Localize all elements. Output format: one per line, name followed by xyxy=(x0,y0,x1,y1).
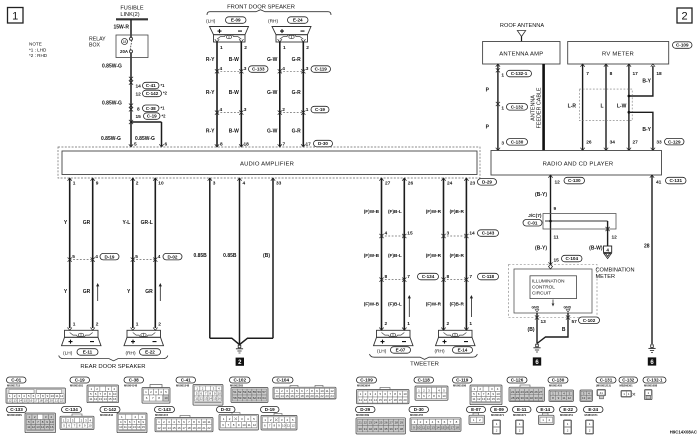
svg-text:(MU801213): (MU801213) xyxy=(596,384,611,388)
phase arrow tweeter RH xyxy=(470,298,472,318)
svg-text:C-134: C-134 xyxy=(422,274,435,279)
svg-text:27: 27 xyxy=(633,139,639,145)
connector table D-19 xyxy=(261,407,280,413)
wire 15W-R xyxy=(130,19,132,37)
svg-text:3: 3 xyxy=(501,141,504,147)
svg-text:MU801671: MU801671 xyxy=(585,413,599,417)
svg-text:4: 4 xyxy=(243,181,246,187)
svg-text:*1 : LHD: *1 : LHD xyxy=(29,48,47,53)
svg-text:15: 15 xyxy=(441,425,445,429)
svg-text:16: 16 xyxy=(290,394,294,398)
ground junction V xyxy=(210,338,273,344)
svg-text:60: 60 xyxy=(243,396,247,400)
wire 28 pin 41 xyxy=(651,175,653,344)
svg-text:1: 1 xyxy=(501,106,504,112)
svg-text:0.85W-G: 0.85W-G xyxy=(101,136,121,142)
tweeter RH xyxy=(436,330,476,345)
svg-text:61: 61 xyxy=(248,396,252,400)
svg-text:G-R: G-R xyxy=(292,57,302,63)
svg-text:8: 8 xyxy=(385,274,388,280)
connector table E-11 xyxy=(513,407,532,413)
svg-text:20: 20 xyxy=(197,426,201,430)
svg-text:MU801455: MU801455 xyxy=(410,413,424,417)
connector table C-126 xyxy=(507,377,527,383)
svg-text:12: 12 xyxy=(8,399,12,403)
connector table D-02 xyxy=(217,407,236,413)
svg-text:10: 10 xyxy=(158,181,164,187)
tweeter bracket xyxy=(370,354,478,359)
svg-text:C-133: C-133 xyxy=(10,407,23,412)
svg-text:C-130: C-130 xyxy=(568,178,581,183)
svg-text:CONTROL: CONTROL xyxy=(532,284,555,289)
label E-07 xyxy=(391,347,411,354)
svg-text:12: 12 xyxy=(568,396,572,400)
svg-text:19: 19 xyxy=(44,399,48,403)
svg-text:7: 7 xyxy=(469,274,472,280)
ground ref 2 xyxy=(236,358,244,366)
svg-text:17: 17 xyxy=(389,398,393,402)
svg-text:28: 28 xyxy=(395,421,399,425)
svg-text:11: 11 xyxy=(554,235,559,241)
svg-text:12: 12 xyxy=(253,423,257,427)
svg-text:GR: GR xyxy=(145,289,153,295)
svg-text:23: 23 xyxy=(369,421,373,425)
connector table C-102 xyxy=(230,377,251,383)
connector mark C-41/C-142 xyxy=(129,77,133,81)
svg-text:C-38: C-38 xyxy=(129,377,139,382)
svg-text:(F)B-L: (F)B-L xyxy=(388,253,402,258)
svg-text:15W-R: 15W-R xyxy=(114,25,130,31)
label E-14 xyxy=(453,347,473,354)
svg-text:*1: *1 xyxy=(161,106,166,111)
svg-text:D-02: D-02 xyxy=(168,254,178,259)
svg-text:8: 8 xyxy=(137,106,140,112)
svg-text:MU801688: MU801688 xyxy=(644,384,658,388)
svg-text:34: 34 xyxy=(610,139,616,145)
svg-text:R-Y: R-Y xyxy=(206,90,215,96)
svg-text:30: 30 xyxy=(358,427,362,431)
connector mark C-132 xyxy=(496,102,500,106)
ground (right) xyxy=(648,345,655,353)
svg-text:14: 14 xyxy=(103,397,107,401)
label C-130 xyxy=(507,139,528,146)
svg-text:C-132: C-132 xyxy=(622,377,635,382)
svg-text:22: 22 xyxy=(320,394,324,398)
svg-text:34: 34 xyxy=(379,427,383,431)
svg-text:16: 16 xyxy=(50,425,54,429)
svg-text:34: 34 xyxy=(539,396,543,400)
RV meter xyxy=(568,42,669,65)
svg-text:MU801715: MU801715 xyxy=(7,384,21,388)
svg-text:22: 22 xyxy=(364,421,368,425)
wire L-R xyxy=(582,64,584,151)
svg-text:63: 63 xyxy=(258,396,262,400)
svg-text:E-07: E-07 xyxy=(396,348,406,353)
connector table C-143 xyxy=(155,407,175,413)
svg-text:38: 38 xyxy=(400,427,404,431)
connector crossing D-02 xyxy=(133,259,156,261)
svg-text:C-104: C-104 xyxy=(276,377,289,382)
connector table D-29 xyxy=(356,407,376,413)
svg-text:C-01: C-01 xyxy=(11,377,21,382)
svg-text:E-14: E-14 xyxy=(458,348,468,353)
connector crossing C-19 xyxy=(280,112,304,114)
svg-text:17: 17 xyxy=(451,425,455,429)
svg-text:24: 24 xyxy=(374,421,378,425)
svg-text:MU801589: MU801589 xyxy=(356,413,370,417)
rear speaker wire pin 2 xyxy=(132,178,134,328)
svg-text:17: 17 xyxy=(182,426,186,430)
svg-text:23: 23 xyxy=(520,390,524,394)
svg-text:2: 2 xyxy=(96,321,99,327)
svg-text:10: 10 xyxy=(282,424,286,428)
tweeter wire pin 23 xyxy=(465,178,467,330)
svg-text:23: 23 xyxy=(470,181,476,187)
svg-text:MU801548: MU801548 xyxy=(176,384,190,388)
svg-text:14: 14 xyxy=(137,425,141,429)
svg-text:(B): (B) xyxy=(263,253,270,259)
svg-text:16: 16 xyxy=(113,397,117,401)
svg-text:(F)W-R: (F)W-R xyxy=(426,253,442,258)
svg-text:11: 11 xyxy=(207,420,210,424)
svg-text:G-R: G-R xyxy=(292,129,302,135)
svg-text:Y-L: Y-L xyxy=(123,220,131,226)
svg-text:4: 4 xyxy=(282,66,285,72)
svg-text:0.85W-G: 0.85W-G xyxy=(135,136,155,142)
phase arrow tweeter LH xyxy=(408,298,410,318)
svg-text:ILLUMINATION: ILLUMINATION xyxy=(532,278,564,283)
svg-text:10: 10 xyxy=(202,420,206,424)
connector table E-24 xyxy=(584,407,604,413)
svg-text:14: 14 xyxy=(587,396,591,400)
svg-text:MU801215: MU801215 xyxy=(155,413,169,417)
svg-text:(RH): (RH) xyxy=(435,348,446,354)
svg-text:26: 26 xyxy=(586,139,592,145)
antenna amp xyxy=(483,42,560,65)
svg-text:C-118: C-118 xyxy=(482,274,495,279)
radio and CD player xyxy=(491,151,662,176)
svg-text:16: 16 xyxy=(177,426,181,430)
svg-text:4: 4 xyxy=(220,66,223,72)
label E-11 xyxy=(77,349,98,356)
wire B pin 57 xyxy=(537,313,568,344)
svg-text:15: 15 xyxy=(45,425,49,429)
svg-text:1: 1 xyxy=(73,181,76,187)
svg-text:MU801671: MU801671 xyxy=(491,413,505,417)
svg-text:FEEDER CABLE: FEEDER CABLE xyxy=(537,87,543,128)
svg-text:10: 10 xyxy=(242,423,246,427)
svg-text:18: 18 xyxy=(300,394,304,398)
svg-text:(B-Y): (B-Y) xyxy=(535,192,547,198)
svg-text:COMBINATION: COMBINATION xyxy=(596,268,635,274)
svg-text:(RH): (RH) xyxy=(126,350,137,356)
svg-text:17: 17 xyxy=(34,399,38,403)
svg-text:15: 15 xyxy=(379,398,383,402)
splice xyxy=(129,120,133,124)
svg-text:5: 5 xyxy=(135,254,138,260)
svg-text:41: 41 xyxy=(600,391,604,395)
svg-text:22: 22 xyxy=(516,390,520,394)
audio amplifier U1 xyxy=(62,151,477,175)
connector table C-130 xyxy=(548,377,568,383)
label D-19 xyxy=(100,253,119,260)
svg-text:10: 10 xyxy=(496,392,500,396)
svg-text:ANTENNA AMP: ANTENNA AMP xyxy=(499,52,543,58)
arrow inside meter xyxy=(552,300,554,305)
svg-text:MU801081: MU801081 xyxy=(70,384,84,388)
svg-text:(F)W-B: (F)W-B xyxy=(364,209,380,214)
svg-text:1: 1 xyxy=(407,321,410,327)
svg-text:15: 15 xyxy=(554,258,560,264)
svg-text:C-142: C-142 xyxy=(104,407,117,412)
svg-text:15: 15 xyxy=(108,397,112,401)
svg-text:27: 27 xyxy=(539,390,543,394)
svg-text:10: 10 xyxy=(320,389,324,393)
wire (B) pin 33 xyxy=(272,178,274,338)
svg-text:52: 52 xyxy=(238,390,242,394)
branch to off-page 4 xyxy=(607,221,609,246)
svg-text:32: 32 xyxy=(369,427,373,431)
svg-text:4: 4 xyxy=(385,230,388,236)
svg-text:19: 19 xyxy=(192,426,196,430)
svg-text:E-07: E-07 xyxy=(471,407,481,412)
svg-text:16: 16 xyxy=(29,399,33,403)
svg-text:57: 57 xyxy=(262,390,266,394)
svg-text:C-134: C-134 xyxy=(65,407,78,412)
svg-text:D-02: D-02 xyxy=(221,407,231,412)
svg-text:L-R: L-R xyxy=(568,104,577,110)
svg-text:C-126: C-126 xyxy=(511,377,524,382)
phase arrow rear LH xyxy=(97,286,99,302)
svg-text:13: 13 xyxy=(431,425,435,429)
label D-29 xyxy=(478,179,497,186)
label C-132-1 xyxy=(507,70,532,77)
rear speaker wire pin 10 xyxy=(154,178,156,328)
svg-text:C-132-1: C-132-1 xyxy=(647,377,663,382)
svg-text:24: 24 xyxy=(525,390,529,394)
svg-text:1: 1 xyxy=(73,321,76,327)
svg-text:G-W: G-W xyxy=(267,129,278,135)
speaker rear RH xyxy=(124,330,164,345)
rear door speaker bracket xyxy=(59,356,168,361)
svg-text:(B): (B) xyxy=(528,327,535,333)
svg-text:2: 2 xyxy=(681,11,687,23)
svg-text:15: 15 xyxy=(407,230,413,236)
connector crossing C-133 xyxy=(217,70,241,72)
svg-text:4: 4 xyxy=(606,247,609,252)
svg-text:14: 14 xyxy=(19,399,23,403)
svg-text:13: 13 xyxy=(582,396,586,400)
svg-text:31: 31 xyxy=(525,396,529,400)
svg-text:C-132-1: C-132-1 xyxy=(511,71,528,76)
label D-30 xyxy=(314,140,333,147)
svg-text:C-129: C-129 xyxy=(668,139,681,144)
svg-text:2: 2 xyxy=(447,321,450,327)
wire L xyxy=(605,64,607,151)
svg-text:C-41: C-41 xyxy=(181,377,191,382)
svg-text:12: 12 xyxy=(612,235,618,241)
svg-text:2: 2 xyxy=(244,45,247,51)
svg-text:21: 21 xyxy=(511,390,515,394)
svg-text:11: 11 xyxy=(562,396,565,400)
connector table C-134 xyxy=(62,407,82,413)
svg-text:22: 22 xyxy=(60,399,64,403)
svg-text:C-131: C-131 xyxy=(600,377,613,382)
tweeter wire pin 26 xyxy=(403,178,405,330)
svg-text:14: 14 xyxy=(469,230,475,236)
svg-text:14: 14 xyxy=(436,425,440,429)
svg-text:G-W: G-W xyxy=(267,57,278,63)
svg-text:9: 9 xyxy=(554,206,557,212)
svg-text:MU801842: MU801842 xyxy=(100,413,114,417)
svg-text:C-143: C-143 xyxy=(158,407,171,412)
svg-text:16: 16 xyxy=(384,398,388,402)
svg-text:(F)W-B: (F)W-B xyxy=(364,253,380,258)
svg-text:4: 4 xyxy=(220,107,223,113)
svg-text:33: 33 xyxy=(534,396,538,400)
label E-22 xyxy=(140,349,161,356)
svg-text:1: 1 xyxy=(306,107,309,113)
svg-text:13: 13 xyxy=(99,397,103,401)
svg-text:12: 12 xyxy=(555,179,561,185)
label C-129 xyxy=(665,138,685,145)
svg-text:(F)B-L: (F)B-L xyxy=(388,302,402,307)
svg-text:10: 10 xyxy=(113,392,117,396)
combination meter inner box xyxy=(514,269,592,313)
page marker 2 xyxy=(677,8,692,23)
svg-text:3: 3 xyxy=(306,66,309,72)
label C-119 xyxy=(311,66,331,73)
label C-38 xyxy=(143,105,160,112)
svg-text:18: 18 xyxy=(656,71,662,77)
svg-text:12: 12 xyxy=(94,397,98,401)
svg-text:28: 28 xyxy=(644,244,650,250)
svg-text:B-Y: B-Y xyxy=(642,79,651,85)
svg-text:11: 11 xyxy=(27,425,30,429)
svg-text:14: 14 xyxy=(487,397,491,401)
svg-text:19: 19 xyxy=(305,394,309,398)
svg-text:C-131: C-131 xyxy=(669,178,682,183)
svg-text:1: 1 xyxy=(136,321,139,327)
svg-text:8: 8 xyxy=(447,274,450,280)
svg-text:D-29: D-29 xyxy=(360,407,370,412)
svg-text:C-132: C-132 xyxy=(511,105,524,110)
connector crossing C-134 xyxy=(382,279,405,281)
svg-text:E-22: E-22 xyxy=(563,407,573,412)
svg-text:B-W: B-W xyxy=(229,129,239,135)
svg-text:*2: *2 xyxy=(163,91,168,96)
connector table C-38 xyxy=(124,377,144,383)
connector table D-30 xyxy=(409,407,429,413)
svg-text:MB266301: MB266301 xyxy=(620,384,634,388)
svg-text:2: 2 xyxy=(136,181,139,187)
svg-text:C-19: C-19 xyxy=(147,114,157,119)
svg-text:21: 21 xyxy=(55,399,59,403)
connector crossing D-19 xyxy=(70,259,93,261)
label C-130 radio xyxy=(564,177,585,184)
svg-text:27: 27 xyxy=(389,421,393,425)
svg-text:35: 35 xyxy=(384,427,388,431)
connector table C-119 xyxy=(453,377,473,383)
svg-text:20: 20 xyxy=(403,398,407,402)
svg-text:15: 15 xyxy=(492,397,496,401)
svg-text:R-Y: R-Y xyxy=(206,57,215,63)
svg-text:9: 9 xyxy=(96,181,99,187)
svg-text:REAR DOOR SPEAKER: REAR DOOR SPEAKER xyxy=(80,364,145,370)
svg-text:41: 41 xyxy=(656,179,662,185)
ground ref 6 left xyxy=(533,357,541,365)
svg-text:31: 31 xyxy=(364,427,368,431)
svg-text:23: 23 xyxy=(325,394,329,398)
svg-text:27: 27 xyxy=(385,181,391,187)
label C-41 xyxy=(143,82,160,89)
svg-text:10: 10 xyxy=(442,394,446,398)
svg-text:B: B xyxy=(562,327,566,333)
svg-text:C-118: C-118 xyxy=(418,377,431,382)
svg-text:13: 13 xyxy=(541,319,547,325)
wire P from antenna amp xyxy=(497,64,499,151)
svg-text:11: 11 xyxy=(89,397,92,401)
svg-text:L-W: L-W xyxy=(617,104,627,110)
svg-text:12: 12 xyxy=(330,389,334,393)
label C-19 xyxy=(311,106,329,113)
label D-02 xyxy=(163,253,182,260)
connector crossing C-119 xyxy=(280,70,304,72)
label C-142 xyxy=(143,90,162,97)
wire to pin 5 xyxy=(130,122,132,147)
svg-text:AUDIO AMPLIFIER: AUDIO AMPLIFIER xyxy=(240,162,294,168)
svg-text:C-104: C-104 xyxy=(565,256,578,261)
connector table C-01 xyxy=(7,377,27,383)
wire (B-Y) pin 12 xyxy=(550,175,552,265)
svg-text:22: 22 xyxy=(207,426,211,430)
svg-text:11: 11 xyxy=(195,397,198,401)
svg-text:13: 13 xyxy=(162,426,166,430)
svg-text:15: 15 xyxy=(285,394,289,398)
svg-text:11: 11 xyxy=(248,423,251,427)
svg-text:*2: *2 xyxy=(162,113,167,118)
svg-text:C-01: C-01 xyxy=(528,220,538,225)
phase arrow rear RH xyxy=(159,286,161,302)
label C-131 radio xyxy=(666,177,687,184)
svg-text:C-133: C-133 xyxy=(252,67,265,72)
svg-text:10: 10 xyxy=(51,394,55,398)
svg-text:NOTE: NOTE xyxy=(29,42,42,47)
svg-text:13: 13 xyxy=(275,394,279,398)
svg-text:7: 7 xyxy=(407,274,410,280)
connector crossing tweeter LH row1 xyxy=(382,235,405,237)
svg-text:E-22: E-22 xyxy=(145,350,155,355)
svg-text:(F)B-L: (F)B-L xyxy=(388,209,402,214)
svg-text:10: 10 xyxy=(164,396,168,400)
svg-text:15: 15 xyxy=(136,114,142,120)
svg-text:C-142: C-142 xyxy=(146,91,159,96)
svg-text:C-130: C-130 xyxy=(511,140,524,145)
svg-text:53: 53 xyxy=(243,390,247,394)
svg-text:C-119: C-119 xyxy=(456,377,469,382)
label C-143 xyxy=(478,230,499,237)
svg-text:H9C14X08AC: H9C14X08AC xyxy=(670,430,697,435)
svg-text:GR-L: GR-L xyxy=(141,220,153,226)
connector table C-131 xyxy=(596,377,616,383)
svg-text:24: 24 xyxy=(447,181,453,187)
svg-text:12: 12 xyxy=(60,394,64,398)
svg-text:10: 10 xyxy=(403,392,407,396)
wire (B) pin 13 xyxy=(536,313,538,344)
svg-text:14: 14 xyxy=(136,84,142,90)
connector table E-22 xyxy=(560,407,578,413)
svg-text:62: 62 xyxy=(253,396,257,400)
